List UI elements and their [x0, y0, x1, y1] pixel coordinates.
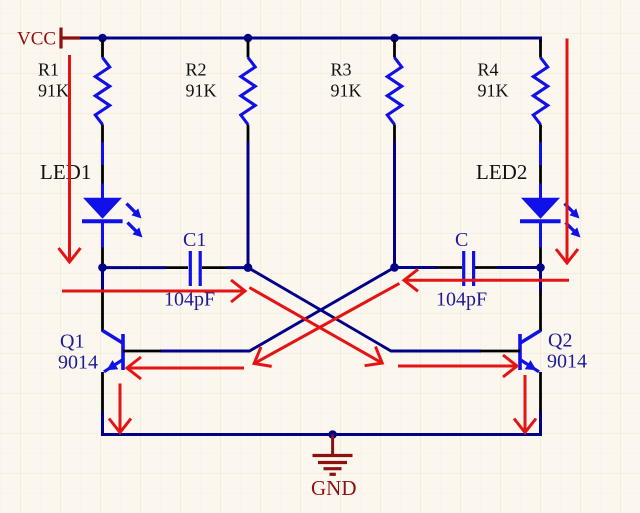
- red arrow: current through LED2 (down): [566, 39, 569, 264]
- ground: [313, 435, 353, 475]
- C left pin: [437, 266, 462, 269]
- wire Q2 emitter to bottom rail: [539, 411, 542, 433]
- wire node A1 to Q2 base (diagonal): [248, 268, 481, 351]
- junction node A2: [390, 263, 399, 272]
- junction at R3 top: [390, 34, 399, 43]
- power port VCC: [61, 28, 80, 49]
- svg-text:C1: C1: [183, 229, 206, 251]
- wire: top VCC rail: [80, 38, 541, 42]
- Q2 collector pin: [539, 291, 542, 332]
- svg-text:R2: R2: [186, 60, 207, 80]
- wire R1 to LED1: [101, 142, 104, 165]
- red arrow: Q2 emitter current (down): [524, 375, 527, 433]
- Q1 collector pin: [101, 291, 104, 332]
- svg-text:VCC: VCC: [17, 29, 56, 50]
- wire node B2 down: [539, 268, 542, 292]
- R3 bottom pin: [393, 125, 396, 143]
- red arrow: into Q2 base (right): [398, 365, 517, 368]
- C right pin: [475, 266, 497, 269]
- wire node A2 to C: [395, 266, 438, 269]
- LED2 anode pin: [539, 165, 542, 184]
- resistor R3: [387, 58, 401, 125]
- LED LED2: [520, 184, 581, 248]
- resistor R2: [241, 58, 255, 125]
- wire R3 to node A2: [393, 142, 396, 264]
- svg-text:Q1: Q1: [60, 331, 84, 353]
- junction at R2 top: [244, 34, 253, 43]
- wire node A2 to Q1 base (diagonal): [160, 267, 395, 351]
- wire R4 to LED2: [539, 142, 542, 165]
- svg-text:R4: R4: [478, 60, 499, 80]
- svg-text:R1: R1: [38, 60, 59, 80]
- Q1 base pin: [123, 350, 161, 353]
- svg-text:91K: 91K: [38, 81, 69, 101]
- svg-text:9014: 9014: [547, 351, 587, 373]
- LED1 cathode pin: [101, 248, 104, 264]
- R3 top pin: [393, 40, 396, 58]
- red arrow: C1 charge path (right): [62, 290, 245, 293]
- svg-text:91K: 91K: [331, 81, 362, 101]
- wire Q1 emitter to bottom rail: [101, 411, 104, 433]
- red arrow: into Q1 base (left): [127, 367, 244, 370]
- svg-text:91K: 91K: [186, 81, 217, 101]
- LED2 cathode pin: [539, 248, 542, 264]
- R2 bottom pin: [247, 125, 250, 143]
- transistor Q1: [103, 331, 124, 372]
- svg-text:R3: R3: [331, 60, 352, 80]
- R4 top pin: [539, 40, 542, 58]
- LED LED1: [82, 184, 143, 248]
- R2 top pin: [247, 40, 250, 58]
- junction node B2 (Q2 collector): [536, 263, 545, 272]
- R1 bottom pin: [101, 125, 104, 143]
- C1 right pin: [202, 266, 227, 269]
- resistor R1: [95, 58, 109, 125]
- LED1 anode pin: [101, 165, 104, 184]
- R4 bottom pin: [539, 125, 542, 143]
- transistor Q2: [520, 331, 541, 372]
- junction at R1 top: [98, 34, 107, 43]
- red arrow: current through LED1 (down): [68, 55, 71, 262]
- R1 top pin: [101, 40, 104, 58]
- svg-text:LED1: LED1: [40, 160, 91, 184]
- svg-text:Q2: Q2: [548, 330, 572, 352]
- wire node B1 to C1: [103, 266, 167, 269]
- wire: bottom ground rail: [101, 433, 542, 436]
- svg-text:LED2: LED2: [476, 160, 527, 184]
- red arrow: cross path A2 to Q1 (diagonal): [254, 283, 399, 363]
- Q1 emitter pin: [101, 372, 104, 411]
- wire C to node B2: [497, 266, 541, 269]
- capacitor C1: [190, 251, 200, 286]
- svg-text:GND: GND: [311, 476, 357, 500]
- wire node B1 down: [101, 268, 104, 292]
- junction node A1: [244, 263, 253, 272]
- red arrow: C discharge path (left): [404, 279, 569, 282]
- wire R2 to node A1: [247, 142, 250, 264]
- resistor R4: [533, 58, 547, 125]
- red arrow: Q1 emitter current (down): [119, 384, 122, 433]
- svg-text:91K: 91K: [478, 81, 509, 101]
- junction node B1 (Q1 collector): [98, 263, 107, 272]
- red arrow: cross path A1 to Q2 (diagonal): [249, 288, 382, 364]
- svg-text:9014: 9014: [58, 352, 98, 374]
- Q2 emitter pin: [539, 372, 542, 411]
- wire C1 to node A1: [227, 266, 248, 269]
- C1 left pin: [166, 266, 188, 269]
- Q2 base pin: [480, 350, 520, 353]
- capacitor C: [464, 251, 474, 286]
- svg-text:104pF: 104pF: [436, 289, 487, 311]
- junction at GND: [328, 430, 337, 439]
- svg-text:C: C: [455, 229, 468, 251]
